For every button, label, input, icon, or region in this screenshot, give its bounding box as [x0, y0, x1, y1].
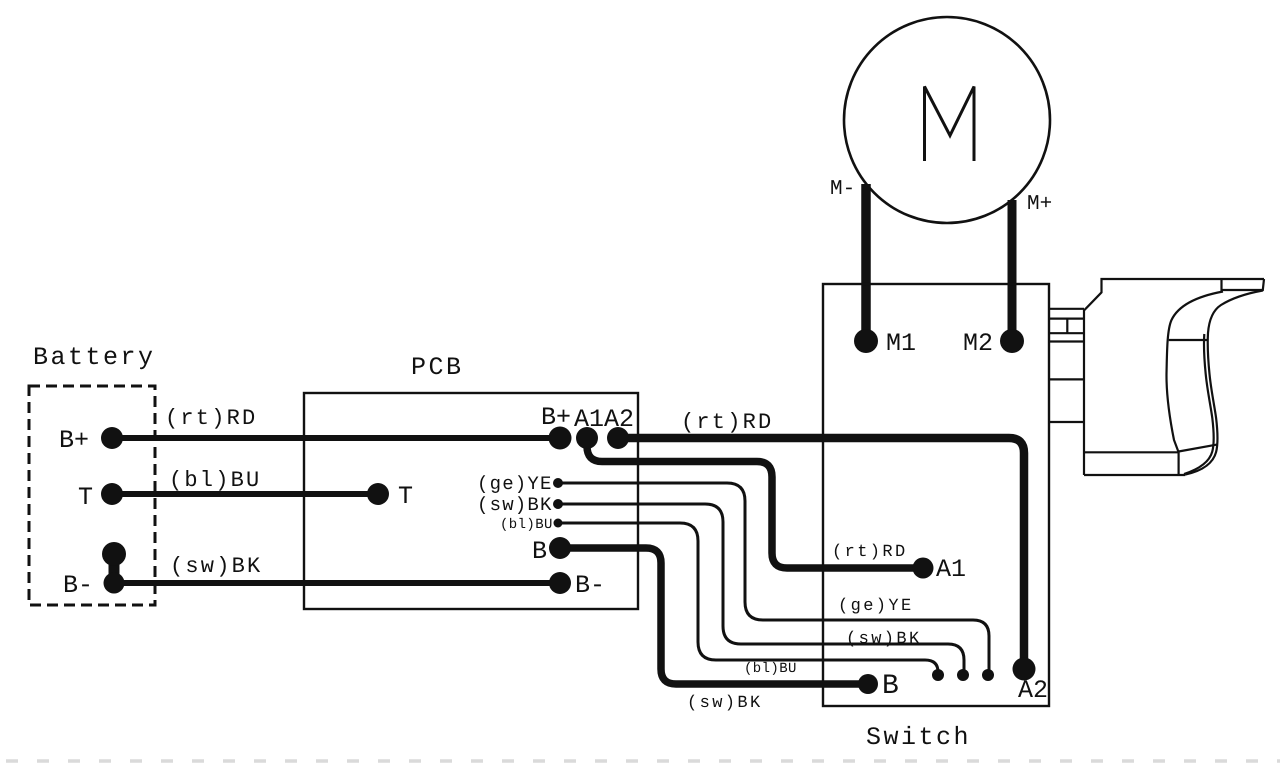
svg-text:B-: B- — [575, 571, 605, 600]
svg-text:T: T — [78, 483, 93, 512]
svg-text:(rt)RD: (rt)RD — [681, 410, 773, 435]
svg-text:(bl)BU: (bl)BU — [169, 468, 261, 493]
svg-text:A1: A1 — [574, 405, 604, 434]
svg-text:M-: M- — [830, 178, 855, 201]
svg-text:(sw)BK: (sw)BK — [687, 694, 763, 713]
svg-text:A2: A2 — [1018, 676, 1048, 705]
svg-text:(rt)RD: (rt)RD — [165, 406, 257, 431]
svg-text:B: B — [532, 537, 547, 566]
svg-text:B: B — [882, 671, 899, 702]
svg-text:(sw)BK: (sw)BK — [477, 494, 553, 516]
svg-text:M2: M2 — [963, 329, 993, 358]
svg-text:(bl)BU: (bl)BU — [744, 661, 797, 677]
svg-text:M1: M1 — [886, 329, 916, 358]
svg-text:PCB: PCB — [411, 353, 464, 382]
svg-text:Switch: Switch — [866, 723, 971, 752]
svg-text:M+: M+ — [1027, 193, 1052, 216]
svg-text:(bl)BU: (bl)BU — [500, 517, 553, 533]
svg-text:(sw)BK: (sw)BK — [846, 630, 922, 649]
svg-text:A1: A1 — [936, 555, 966, 584]
svg-text:Battery: Battery — [33, 343, 156, 372]
svg-text:(ge)YE: (ge)YE — [838, 597, 914, 616]
svg-text:(sw)BK: (sw)BK — [170, 554, 262, 579]
svg-text:(ge)YE: (ge)YE — [477, 473, 553, 495]
svg-text:B+: B+ — [541, 403, 571, 432]
svg-text:T: T — [398, 482, 413, 511]
svg-text:(rt)RD: (rt)RD — [832, 543, 908, 562]
svg-text:A2: A2 — [604, 405, 634, 434]
svg-text:B+: B+ — [59, 426, 89, 455]
svg-text:B-: B- — [63, 571, 93, 600]
